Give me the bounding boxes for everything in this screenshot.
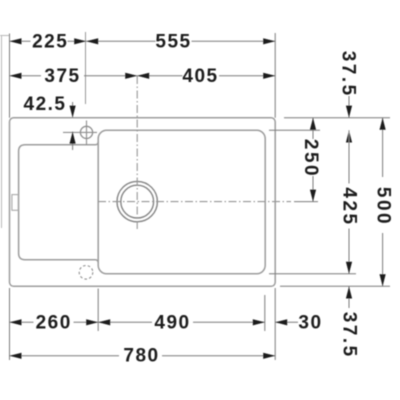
dimension 250 right	[312, 118, 314, 202]
dimension 375	[10, 75, 138, 77]
svg-text:260: 260	[36, 312, 72, 333]
extension line bowl-top y=130.2 right	[269, 129, 320, 131]
drain inner circle	[121, 185, 154, 218]
svg-text:375: 375	[44, 66, 80, 87]
extension line sink-top y=117.8 right	[284, 117, 390, 119]
dimension 490 bottom	[98, 321, 265, 323]
extension line bowl-right x=264.8 bottom	[264, 295, 266, 331]
extension line right x=275.2 top	[274, 33, 276, 118]
extension line centerline y=201.6 right	[294, 201, 318, 203]
dimension 42.5	[72, 102, 74, 150]
svg-text:555: 555	[155, 31, 191, 52]
drain outer circle	[117, 181, 157, 221]
extension line bowl-left x=98.2 bottom	[97, 289, 99, 332]
dimension 260 bottom	[10, 321, 99, 323]
extension line bowl-bottom y=273.8 right	[269, 273, 356, 275]
svg-text:500: 500	[373, 187, 394, 226]
dimension 500 right	[382, 118, 384, 286]
left page-edge artifact line	[0, 35, 9, 228]
dimension 405	[137, 75, 275, 77]
vertical centerline through drain	[136, 76, 138, 229]
svg-text:425: 425	[339, 187, 360, 226]
dimension 30 bottom	[275, 321, 298, 323]
dimension 225	[10, 40, 87, 42]
svg-text:37.5: 37.5	[338, 51, 359, 98]
extension line tap-hole x=85.5	[85, 32, 87, 104]
svg-text:37.5: 37.5	[339, 312, 360, 359]
svg-text:490: 490	[154, 312, 190, 333]
svg-text:405: 405	[182, 66, 218, 87]
extension line sink-bottom y=286.3 right	[280, 285, 390, 287]
bowl	[98, 130, 265, 274]
extension line left x=9.5 top	[9, 34, 11, 118]
drainboard	[19, 142, 99, 263]
extension line right x=275.2 bottom	[274, 288, 276, 360]
dimension 780 bottom	[10, 355, 276, 357]
sink outer rim	[10, 118, 276, 286]
dimension 37.5 bottom right	[348, 286, 350, 308]
horizontal centerline	[98, 201, 291, 203]
svg-text:30: 30	[298, 313, 322, 334]
tap hole crosshair	[63, 121, 97, 145]
tap hole	[80, 126, 92, 138]
fixing clip left edge	[12, 195, 18, 211]
svg-text:225: 225	[32, 31, 68, 52]
svg-text:42.5: 42.5	[24, 94, 67, 115]
dashed knockout hole bottom	[79, 266, 93, 280]
dimension 37.5 top right	[348, 96, 350, 118]
dimension 555	[86, 40, 275, 42]
extension line left x=9.5 bottom	[9, 288, 11, 360]
svg-text:780: 780	[123, 345, 159, 366]
dimension 425 right	[348, 130, 350, 273]
svg-text:250: 250	[300, 139, 321, 178]
